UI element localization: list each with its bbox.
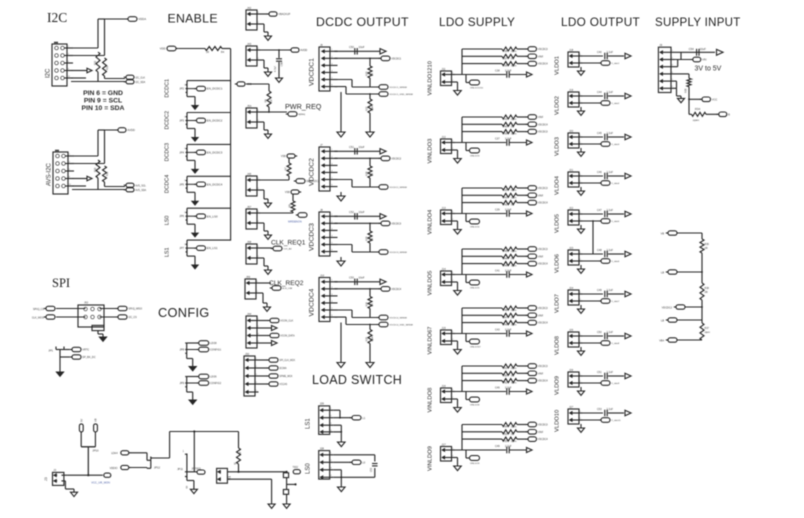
ground VLDO8 xyxy=(580,347,582,351)
wire VINLDO1210 vertical xyxy=(455,74,506,76)
svg-text:2.2uF: 2.2uF xyxy=(607,51,614,54)
resistor R44 0R xyxy=(502,254,517,258)
wire VINLDO5 vertical xyxy=(455,274,506,276)
svg-text:R24: R24 xyxy=(366,301,369,306)
wire vb top xyxy=(677,232,702,234)
capacitor C55 4.7uF xyxy=(278,49,280,51)
flag VDCDC3 xyxy=(517,365,527,367)
wire row R39 xyxy=(462,131,502,133)
ground arrow VDCDC4 a xyxy=(337,363,345,368)
flag VDCDC4_SENSE xyxy=(379,315,388,320)
svg-text:CONFIG: CONFIG xyxy=(158,305,210,320)
svg-text:LDO8: LDO8 xyxy=(210,342,217,345)
capacitor C45 2.2uF xyxy=(604,134,606,141)
resistor R25 open xyxy=(502,186,517,190)
flag V_VLDO5 xyxy=(601,219,610,224)
svg-text:VINF: VINF xyxy=(538,116,544,119)
flag VDCDC3 xyxy=(517,187,527,189)
flag VDCDC4_GND_SENSE xyxy=(379,322,388,327)
svg-text:VSB: VSB xyxy=(285,191,290,194)
flag VDCDC2_SENSE xyxy=(379,185,388,190)
wire VLDO1 flag xyxy=(583,62,601,64)
wire u1 lower gnd xyxy=(227,478,271,480)
svg-text:C40: C40 xyxy=(597,51,602,54)
svg-text:R43: R43 xyxy=(503,196,508,199)
svg-text:V_vldo10: V_vldo10 xyxy=(611,420,621,422)
connector J30 xyxy=(244,356,255,396)
svg-text:0R: 0R xyxy=(371,303,374,306)
flag VDCDC4 xyxy=(517,322,527,324)
wire VDCDC1 gnd sense xyxy=(335,86,347,88)
svg-text:J14: J14 xyxy=(442,267,447,271)
wire supply top xyxy=(675,51,716,53)
ground VLDO5 xyxy=(580,225,582,229)
flag CONFIG2 xyxy=(199,381,209,386)
svg-text:J59: J59 xyxy=(246,275,251,279)
svg-text:J57: J57 xyxy=(247,205,252,209)
wire VINLDO9 vertical xyxy=(455,449,506,451)
resistor R24 0R xyxy=(369,289,371,297)
svg-text:VCON_CLK: VCON_CLK xyxy=(280,320,293,323)
svg-text:R22: R22 xyxy=(366,106,369,111)
svg-text:V_vldo2: V_vldo2 xyxy=(611,103,620,105)
wire VDCDC3 sense xyxy=(335,244,353,246)
wire row R51 xyxy=(462,365,502,367)
flag SPI0_MISO xyxy=(118,306,127,310)
wire VLDO8 flag xyxy=(583,342,601,344)
ground VLDO9 xyxy=(580,387,582,391)
svg-text:CLK_REQ1: CLK_REQ1 xyxy=(271,240,306,247)
svg-text:R29: R29 xyxy=(366,236,369,241)
resistor R54 open xyxy=(502,423,517,427)
ground VLDO6 xyxy=(580,265,582,269)
wire VLDO5 out xyxy=(583,213,604,215)
resistor R31 xyxy=(103,166,107,182)
svg-text:JP11: JP11 xyxy=(177,467,183,471)
svg-text:J26: J26 xyxy=(569,368,574,372)
svg-text:R55: R55 xyxy=(503,440,508,443)
svg-text:JP6: JP6 xyxy=(179,214,184,218)
resistor R33 xyxy=(103,58,107,76)
wire VDCDC4 flag xyxy=(335,288,381,290)
svg-text:VINF: VINF xyxy=(538,314,544,317)
ground VLDO3 xyxy=(580,148,582,152)
flag VDCDC4 xyxy=(517,123,527,125)
resistor R34 open xyxy=(689,113,692,115)
flag VIN xyxy=(693,57,701,62)
ground Q2 xyxy=(283,504,290,508)
svg-text:PIN 9 = SCL: PIN 9 = SCL xyxy=(84,97,122,104)
wire enable feed xyxy=(178,48,205,50)
flag VDCDC4 xyxy=(517,263,527,265)
ground supply arrow xyxy=(678,98,685,102)
svg-text:J30: J30 xyxy=(245,352,250,356)
wire VIN flag xyxy=(675,59,692,61)
ground J43 xyxy=(261,59,265,61)
wire row R49 xyxy=(462,322,502,324)
svg-text:R36: R36 xyxy=(705,243,710,246)
ground J52 xyxy=(100,337,107,341)
svg-text:0R: 0R xyxy=(511,374,514,377)
svg-text:LDO6: LDO6 xyxy=(210,376,217,379)
svg-text:10uF: 10uF xyxy=(359,210,365,214)
arrow VLDO3 xyxy=(625,134,631,139)
arrow vcon2 xyxy=(261,342,272,344)
flag SPI0_CS xyxy=(46,306,55,310)
svg-text:I2C_CLK: I2C_CLK xyxy=(135,76,145,79)
svg-text:J15: J15 xyxy=(442,326,447,330)
svg-text:C45: C45 xyxy=(597,132,602,135)
wire VDCDC2 flag xyxy=(335,157,381,159)
flag I2C_SPI xyxy=(259,367,269,369)
svg-text:J27: J27 xyxy=(569,405,574,409)
flag V_VLDO6 xyxy=(601,259,610,264)
resistor R8 pullup xyxy=(292,194,294,201)
ground arrow VDCDC3 xyxy=(340,257,342,261)
svg-text:VB: VB xyxy=(661,233,665,236)
svg-text:VINLDO4: VINLDO4 xyxy=(428,209,434,235)
wire jp1 gnd xyxy=(59,357,61,372)
svg-text:J24: J24 xyxy=(569,286,574,290)
svg-text:2.2uF: 2.2uF xyxy=(505,138,512,141)
svg-text:VLDO1: VLDO1 xyxy=(555,56,561,75)
svg-text:open: open xyxy=(511,189,517,192)
flag DEF_MODE xyxy=(259,375,269,377)
flag PWR_REQ xyxy=(288,112,297,117)
wire spi right1 xyxy=(100,308,118,310)
wire gnd tie56 xyxy=(675,80,677,82)
arrow supply xyxy=(717,49,724,55)
flag AVDD xyxy=(291,48,299,52)
wire spi left2 xyxy=(56,316,86,318)
flag VDCDC1 xyxy=(381,56,390,61)
connector J59 xyxy=(245,279,256,299)
svg-text:VDCDC1_SENSE: VDCDC1_SENSE xyxy=(389,87,407,89)
svg-text:R40: R40 xyxy=(503,125,508,128)
arrow VLDO10 xyxy=(625,410,631,415)
svg-text:C46: C46 xyxy=(495,387,500,390)
svg-text:V_vldo7: V_vldo7 xyxy=(611,301,620,303)
svg-text:J42: J42 xyxy=(247,6,252,10)
wire j3 gnd xyxy=(64,481,66,489)
connector J52 SPI header xyxy=(78,305,104,327)
connector J58 xyxy=(246,244,257,264)
flag V_VLDO10 xyxy=(601,418,610,423)
wire enable bus xyxy=(222,48,231,50)
flag VDDA xyxy=(128,17,137,22)
svg-text:VDCDC3: VDCDC3 xyxy=(538,187,549,190)
svg-text:7002: 7002 xyxy=(293,466,299,469)
svg-text:JR: JR xyxy=(206,51,209,54)
svg-text:R33: R33 xyxy=(106,65,109,70)
svg-text:VDCDC4_GND_SENSE: VDCDC4_GND_SENSE xyxy=(389,325,413,327)
svg-text:R46: R46 xyxy=(503,265,508,268)
svg-text:VLDO7: VLDO7 xyxy=(555,294,561,313)
flag V_VLDO3 xyxy=(601,142,610,147)
connector J1 I2C header xyxy=(52,44,67,86)
wire spi right2 xyxy=(100,316,118,318)
jumper JP3 enable DCDC2 xyxy=(186,113,188,125)
connector J14 VINLDO5 xyxy=(441,271,452,286)
wire q1 source gnd xyxy=(186,477,188,481)
svg-text:C44: C44 xyxy=(597,91,602,94)
resistor R28 0R xyxy=(369,158,371,166)
flag VCC_UR_MON xyxy=(104,473,111,477)
ground VINLDO9 xyxy=(455,457,458,459)
svg-text:2.2uF: 2.2uF xyxy=(607,331,614,334)
arrow VINLDO9 xyxy=(527,448,533,453)
svg-text:J25: J25 xyxy=(569,328,574,332)
jumper JP11 xyxy=(186,454,188,478)
flag VCC xyxy=(702,97,711,102)
capacitor C43 2.2uF xyxy=(506,330,508,337)
svg-text:R25: R25 xyxy=(366,336,369,341)
ground J59 xyxy=(260,292,264,294)
resistor R38 open xyxy=(502,47,517,51)
wire VLDO7 out xyxy=(583,293,604,295)
svg-text:VLDO9: VLDO9 xyxy=(555,376,561,395)
svg-text:R30: R30 xyxy=(94,167,97,172)
svg-text:open: open xyxy=(511,440,517,443)
resistor R30 xyxy=(96,160,100,178)
wire VDCDC1 gnd drops xyxy=(340,92,342,132)
flag VSB wrden xyxy=(291,190,299,194)
svg-text:VDCDC2: VDCDC2 xyxy=(662,307,673,310)
svg-text:VDCDC4: VDCDC4 xyxy=(538,380,549,383)
svg-text:C51: C51 xyxy=(597,371,602,374)
flag V_VLDO7 xyxy=(601,299,610,304)
svg-text:I2C_SDA: I2C_SDA xyxy=(135,81,145,84)
flag DEFDCDC3 xyxy=(296,179,305,184)
wire row R48 xyxy=(462,307,502,309)
resistor R51 open xyxy=(502,364,517,368)
wire AVDD xyxy=(261,49,291,51)
capacitor C37 2.2uF xyxy=(506,139,508,146)
connector J29 LS1 xyxy=(319,406,330,435)
ground J57 xyxy=(261,222,265,224)
wire VLDO6 out xyxy=(583,253,604,255)
svg-text:open: open xyxy=(511,50,517,53)
ground J45 xyxy=(261,189,265,191)
arrow VINLDO5 xyxy=(527,272,533,277)
svg-text:J58: J58 xyxy=(247,240,252,244)
svg-text:J20: J20 xyxy=(569,129,574,133)
svg-text:2.2uF: 2.2uF xyxy=(505,70,512,73)
flag VDDIO xyxy=(121,465,129,469)
svg-text:R32: R32 xyxy=(94,60,97,65)
svg-text:C39: C39 xyxy=(495,209,500,212)
resistor R53 0R xyxy=(502,430,517,434)
svg-text:C50: C50 xyxy=(597,331,602,334)
wire LS0 gnd xyxy=(333,469,341,471)
wire LS1 out xyxy=(333,409,340,411)
wire row R46 xyxy=(462,263,502,265)
flag CLK_REQ2 xyxy=(272,286,281,291)
flag V_VLDO8 xyxy=(601,341,610,346)
svg-text:C41: C41 xyxy=(495,270,500,273)
capacitor C52 10uF xyxy=(354,213,356,220)
wire u1 main xyxy=(227,471,286,473)
svg-text:0R: 0R xyxy=(511,204,514,207)
resistor R36 open xyxy=(502,62,517,66)
wire JP9 gnd xyxy=(186,387,188,392)
capacitor C38 2.2uF xyxy=(506,71,508,78)
svg-text:R49: R49 xyxy=(503,324,508,327)
jumper JP4 enable DCDC3 xyxy=(186,144,188,156)
svg-text:0R: 0R xyxy=(705,247,708,250)
connector J3 xyxy=(53,472,64,485)
svg-text:ENABLE: ENABLE xyxy=(168,12,218,26)
flag VB4 xyxy=(668,338,677,342)
svg-text:1M: 1M xyxy=(270,99,273,102)
arrow VLDO9 xyxy=(625,373,631,378)
resistor R9 51R xyxy=(238,432,240,449)
wire VLDO10 flag xyxy=(583,419,601,421)
wire VDCDC1 sense xyxy=(335,79,353,81)
svg-text:J5A: J5A xyxy=(247,104,252,108)
svg-text:10uF: 10uF xyxy=(359,276,365,280)
wire row R25 xyxy=(462,187,502,189)
arrow VLDO7 xyxy=(625,291,631,296)
flag CLK_REQ1 xyxy=(273,246,282,251)
connector J17 VINLDO9 xyxy=(441,447,452,462)
wire row R54 xyxy=(462,424,502,426)
ground VINLDO8 xyxy=(455,398,458,400)
resistor R47 0R xyxy=(502,313,517,317)
ground VINLDO67 xyxy=(455,340,458,342)
arrow VINLDO8 xyxy=(527,389,533,394)
wire VINLDO3 vertical xyxy=(455,142,506,144)
svg-text:R37: R37 xyxy=(503,57,508,60)
wire defdcdc3 xyxy=(261,179,290,181)
svg-text:R51: R51 xyxy=(503,367,508,370)
wire wrden xyxy=(261,212,294,214)
svg-text:J45: J45 xyxy=(247,172,252,176)
wire row R42 xyxy=(462,202,502,204)
wire lda4 xyxy=(131,452,147,454)
svg-text:C48: C48 xyxy=(597,249,602,252)
wire VDCDC4 out xyxy=(335,281,381,283)
ground VLDO7 xyxy=(580,305,582,309)
svg-text:VINLDO5: VINLDO5 xyxy=(428,271,434,296)
svg-text:VDDA: VDDA xyxy=(138,17,146,21)
ground LS1 xyxy=(338,442,346,447)
svg-text:open: open xyxy=(705,331,711,334)
svg-text:CLK_MOSI: CLK_MOSI xyxy=(32,317,44,320)
svg-text:J43: J43 xyxy=(247,42,252,46)
svg-text:VDCDC4: VDCDC4 xyxy=(538,263,549,266)
wire spi gnd xyxy=(92,325,104,330)
svg-text:0R: 0R xyxy=(371,173,374,176)
svg-text:DCDC2: DCDC2 xyxy=(165,111,171,130)
flag VDCDC3 xyxy=(517,248,527,250)
arrow VLDO4 xyxy=(625,173,631,178)
svg-text:VLDO6: VLDO6 xyxy=(555,254,561,273)
svg-text:open: open xyxy=(511,65,517,68)
wire R35 down xyxy=(688,87,690,115)
resistor R52 open xyxy=(502,379,517,383)
wire VLDO9 flag xyxy=(583,382,601,384)
svg-text:open: open xyxy=(511,133,517,136)
svg-text:LS0: LS0 xyxy=(165,216,171,226)
svg-text:2.2uF: 2.2uF xyxy=(607,408,614,411)
jumper JP2 enable DCDC1 xyxy=(186,81,188,93)
flag VDCDC1_GND_SENSE xyxy=(379,92,388,97)
svg-text:AVS_SCL: AVS_SCL xyxy=(135,184,146,187)
wire row R45 xyxy=(462,248,502,250)
svg-text:V_vldo4: V_vldo4 xyxy=(611,183,620,185)
svg-text:J44: J44 xyxy=(247,312,252,316)
flag VDCDC4 xyxy=(381,287,390,292)
capacitor C41 2.2uF xyxy=(506,271,508,278)
wire VDCDC4 gnd drops xyxy=(340,323,342,363)
flag VINF xyxy=(517,255,527,257)
ground arrow VDCDC4 b xyxy=(366,363,374,368)
svg-text:SUPPLY INPUT: SUPPLY INPUT xyxy=(655,17,741,29)
svg-text:0R: 0R xyxy=(511,125,514,128)
svg-text:5V: 5V xyxy=(79,419,83,422)
svg-text:VDDIO: VDDIO xyxy=(110,467,118,470)
svg-text:R34: R34 xyxy=(695,107,701,111)
svg-text:LDO OUTPUT: LDO OUTPUT xyxy=(561,15,640,29)
svg-text:VDD: VDD xyxy=(160,47,166,51)
wire jp11 mid xyxy=(187,471,197,473)
svg-text:SPI/Q_MISO: SPI/Q_MISO xyxy=(128,308,142,311)
ground VLDO4 xyxy=(580,187,582,191)
flag VDCDC2 xyxy=(381,156,390,161)
flag VINF xyxy=(517,431,527,433)
connector J16 VINLDO8 xyxy=(441,388,452,403)
ground VLDO10 xyxy=(580,424,582,428)
resistor R45 open xyxy=(502,247,517,251)
svg-text:10uF: 10uF xyxy=(359,45,365,49)
ground VINLDO4 xyxy=(455,220,458,222)
connector J21 VLDO4 xyxy=(568,172,579,187)
svg-text:C37: C37 xyxy=(495,138,500,141)
svg-text:CONFIG2: CONFIG2 xyxy=(210,382,222,385)
wire VLDO3 out xyxy=(583,136,604,138)
wire vddio xyxy=(131,467,147,469)
connector J42 xyxy=(246,10,257,30)
svg-text:AVS_SDA: AVS_SDA xyxy=(135,189,146,192)
svg-text:LS1: LS1 xyxy=(165,248,171,258)
svg-text:VSB: VSB xyxy=(281,155,286,158)
wire VDCDC1 out xyxy=(335,50,381,52)
svg-text:VCCAS: VCCAS xyxy=(279,383,287,386)
connector J25 VLDO8 xyxy=(568,332,579,347)
resistor R50 0R xyxy=(502,371,517,375)
svg-text:J18: J18 xyxy=(569,48,574,52)
svg-text:VLDO10: VLDO10 xyxy=(555,410,561,432)
flag VDCDC3 xyxy=(517,48,527,50)
ground VLDO1 xyxy=(580,67,582,71)
svg-text:VINLDO8: VINLDO8 xyxy=(428,388,434,413)
wire VDCDC3 flag xyxy=(335,222,381,224)
svg-text:0R: 0R xyxy=(511,316,514,319)
wire VCC xyxy=(689,98,701,100)
resistor R55 open xyxy=(502,437,517,441)
resistor R40 0R xyxy=(502,122,517,126)
flag VB top xyxy=(668,231,677,235)
wire row R37 xyxy=(462,55,502,57)
svg-text:R47: R47 xyxy=(503,316,508,319)
wire VDCDC4 gnd sense xyxy=(335,316,347,318)
svg-text:V_vldo6: V_vldo6 xyxy=(611,261,620,263)
svg-text:C50: C50 xyxy=(349,45,354,49)
svg-text:V_vldo3: V_vldo3 xyxy=(611,144,620,146)
connector J19 VLDO2 xyxy=(568,92,579,107)
svg-text:VDCDC3: VDCDC3 xyxy=(538,131,549,134)
